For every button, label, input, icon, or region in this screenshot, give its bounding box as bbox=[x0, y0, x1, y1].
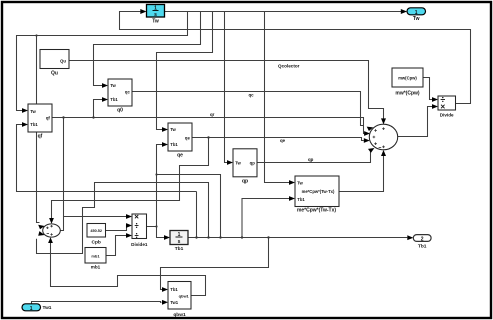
block Cpb bbox=[87, 224, 106, 246]
svg-text:qf: qf bbox=[38, 134, 43, 140]
wire Tb1 main line to outport bbox=[188, 237, 407, 239]
svg-text:q0: q0 bbox=[117, 108, 123, 114]
svg-text:Tw: Tw bbox=[170, 127, 176, 132]
svg-text:Tw: Tw bbox=[30, 109, 36, 114]
svg-text:qc: qc bbox=[125, 90, 131, 95]
svg-text:Tb1: Tb1 bbox=[418, 244, 427, 250]
svg-text:me*Cpw*(Tw-Tx): me*Cpw*(Tw-Tx) bbox=[302, 189, 335, 194]
svg-text:Tw: Tw bbox=[297, 180, 303, 185]
inport oval Tw1 bbox=[22, 304, 52, 312]
wire meCpw output to big sum bottom bbox=[339, 156, 384, 192]
svg-text:Divide1: Divide1 bbox=[131, 242, 148, 247]
wire qc from q0 to big sum bbox=[132, 92, 364, 126]
wire Tb1 v1 riser bbox=[196, 192, 198, 238]
block qp bbox=[233, 149, 257, 185]
block meCpw bbox=[295, 176, 339, 214]
svg-text:qbw1: qbw1 bbox=[179, 294, 190, 299]
svg-text:Tb1: Tb1 bbox=[30, 122, 38, 127]
wire Tb1 branch to qbw1.Tb1 bbox=[161, 238, 269, 290]
arrow into Tb1 outport bbox=[407, 235, 413, 240]
block qe bbox=[168, 123, 192, 159]
integrator Tw (cyan 1/s) bbox=[147, 5, 165, 25]
svg-text:qp: qp bbox=[250, 160, 256, 165]
junction on Tb1 line at v3 bbox=[219, 236, 221, 238]
big sum junction bbox=[369, 124, 397, 150]
arrow into small sum top bbox=[49, 218, 54, 224]
arrow into q0.Tw bbox=[102, 83, 108, 88]
wire qp from qp block to big sum bbox=[257, 152, 371, 163]
svg-text:1: 1 bbox=[154, 6, 157, 12]
svg-text:Tw: Tw bbox=[110, 83, 116, 88]
arrow into Tw outport bbox=[401, 9, 407, 14]
arrow into qe.Tb1 bbox=[162, 142, 168, 147]
wire Tb1 rail to qe.Tb1 bbox=[157, 145, 163, 227]
arrow into qf.Tb1 bbox=[22, 122, 28, 127]
wire small sum output to Divide1 bbox=[60, 217, 126, 231]
arrow into qp.Tw bbox=[227, 160, 233, 165]
block q0 bbox=[108, 79, 132, 114]
arrowheads bbox=[22, 9, 438, 305]
arrow into Tb1 integrator bbox=[164, 235, 170, 240]
arrow into small sum lower-left bbox=[38, 231, 44, 236]
wire Tw1 inport to qbw1.Tw1 bbox=[32, 302, 162, 305]
arrow into big sum qe port bbox=[364, 138, 370, 143]
wire Tb1 feed to meCpw.Tb1 bbox=[242, 199, 289, 238]
wire Tw drop 4 to qp.Tw bbox=[225, 12, 228, 163]
arrow into integrator Tw bbox=[140, 9, 146, 14]
svg-text:Tb1: Tb1 bbox=[110, 97, 118, 102]
outport oval Tb1 bbox=[413, 235, 431, 250]
junction on Tb1 line at meCpw branch bbox=[241, 236, 243, 238]
svg-text:Qcolector: Qcolector bbox=[278, 64, 300, 69]
svg-text:1: 1 bbox=[178, 232, 181, 238]
svg-text:qbw1: qbw1 bbox=[173, 312, 186, 318]
svg-text:qe: qe bbox=[177, 153, 183, 159]
block Divide1 bbox=[131, 214, 148, 247]
svg-text:Tb1: Tb1 bbox=[170, 142, 178, 147]
svg-text:Divide: Divide bbox=[440, 113, 454, 118]
svg-text:Tw: Tw bbox=[413, 16, 420, 22]
arrow into big sum qf port bbox=[364, 131, 370, 136]
integrator Tb1 (1/s) bbox=[170, 231, 188, 253]
svg-text:s: s bbox=[154, 12, 157, 18]
svg-text:1: 1 bbox=[415, 10, 418, 16]
arrow into Divide1 input 1 bbox=[126, 214, 132, 219]
junction on Tb1 rail at y=174.5 bbox=[155, 173, 157, 175]
block mb1 bbox=[85, 248, 106, 270]
wire mwCpw output to Divide bbox=[423, 78, 432, 100]
svg-text:qe: qe bbox=[185, 136, 191, 141]
wire Tw drop 3 to qe.Tw bbox=[157, 12, 213, 130]
block Qu bbox=[40, 50, 69, 77]
junction on qf wire at x=93.5 bbox=[92, 116, 94, 118]
wire mb1 output to Divide1 bbox=[106, 236, 127, 256]
wire Divide output return loop to integrator input bbox=[120, 12, 471, 104]
junction on Tw drop1 line bbox=[35, 34, 37, 36]
arrow into big sum top bbox=[381, 118, 386, 124]
arrow into small sum upper-left bbox=[38, 225, 44, 230]
wire Tb1 v3 riser bbox=[157, 175, 221, 238]
svg-text:2: 2 bbox=[421, 236, 424, 242]
arrow into big sum bottom bbox=[381, 150, 386, 156]
block qf bbox=[28, 104, 52, 140]
svg-text:qr: qr bbox=[210, 112, 215, 117]
svg-text:Qu: Qu bbox=[51, 71, 58, 77]
arrow into meCpw.Tw bbox=[289, 180, 295, 185]
wire Tw bus (integrator output to Tw outport) bbox=[165, 11, 404, 13]
junction on qe wire bbox=[207, 136, 209, 138]
arrow into big sum qc port bbox=[367, 127, 374, 131]
wire qf from qf block to big sum bbox=[52, 118, 364, 134]
outport oval Tw bbox=[407, 8, 426, 22]
junction on Tb1 line at v1 bbox=[195, 236, 197, 238]
wire qe from qe block to big sum bbox=[192, 138, 364, 141]
wire Tw rail to small sum upper-left bbox=[37, 36, 40, 223]
svg-text:1: 1 bbox=[30, 306, 33, 312]
svg-text:Cpb: Cpb bbox=[92, 240, 101, 246]
wire big sum output to Divide bbox=[398, 107, 432, 137]
svg-text:Tw1: Tw1 bbox=[170, 300, 179, 305]
arrow into qbw1.Tb1 bbox=[162, 287, 168, 292]
wire qe branch to small sum top bbox=[52, 138, 209, 219]
arrow into meCpw.Tb1 bbox=[289, 196, 295, 201]
arrow into Divide top input bbox=[432, 97, 438, 102]
svg-text:450.52: 450.52 bbox=[90, 229, 102, 233]
svg-text:s: s bbox=[178, 239, 181, 245]
arrow into Divide1 input 2 bbox=[126, 223, 132, 228]
arrow into qbw1.Tw1 bbox=[162, 300, 168, 305]
wire Divide1 output to Tb1 integrator bbox=[147, 227, 165, 238]
svg-text:qe: qe bbox=[280, 138, 286, 143]
svg-text:mw*(Cpw): mw*(Cpw) bbox=[395, 90, 420, 96]
wire Tw drop 5 to meCpw.Tw bbox=[265, 12, 290, 183]
arrow into Divide bottom input bbox=[432, 104, 438, 109]
junction on qf wire at x=63.5 bbox=[62, 116, 64, 118]
wire Tb1 to qf.Tb1 bbox=[17, 125, 197, 192]
svg-text:qc: qc bbox=[249, 93, 255, 98]
svg-text:Tw1: Tw1 bbox=[43, 305, 52, 311]
svg-text:qp: qp bbox=[242, 178, 248, 184]
svg-text:qp: qp bbox=[308, 157, 314, 162]
arrow into qe.Tw bbox=[162, 127, 168, 132]
block qbw1 bbox=[168, 282, 191, 319]
wire Cpb output to Divide1 bbox=[106, 226, 128, 231]
svg-text:Tw: Tw bbox=[152, 19, 159, 25]
junction on Tb1 line at qbw1 branch bbox=[267, 236, 269, 238]
svg-text:me*Cpw*(Tw-Tx): me*Cpw*(Tw-Tx) bbox=[297, 208, 336, 214]
svg-text:mw(Cpw): mw(Cpw) bbox=[398, 75, 417, 80]
wire Tb1 v2 riser to small sum lower-left bbox=[37, 183, 209, 254]
arrow into q0.Tb1 bbox=[102, 97, 108, 102]
small sum junction bbox=[43, 224, 61, 237]
wire Tw drop 2 to q0.Tw bbox=[94, 12, 201, 86]
svg-text:Tb1: Tb1 bbox=[297, 197, 305, 202]
arrow into small sum bottom bbox=[48, 237, 53, 243]
svg-text:Qu: Qu bbox=[60, 58, 66, 63]
block mwCpw bbox=[392, 68, 423, 96]
junction on Tb1 line at v2 bbox=[207, 236, 209, 238]
wire qbw1 output loop to small sum bottom bbox=[51, 243, 206, 296]
block Divide bbox=[438, 96, 456, 118]
svg-text:Tb1: Tb1 bbox=[170, 287, 178, 292]
wire Tw drop 1 to qf.Tw bbox=[17, 12, 188, 111]
svg-text:mb1: mb1 bbox=[91, 253, 100, 258]
svg-text:mb1: mb1 bbox=[91, 265, 101, 270]
arrow into qf.Tw bbox=[22, 108, 28, 113]
svg-text:qf: qf bbox=[46, 115, 51, 120]
svg-text:Tb1: Tb1 bbox=[175, 246, 184, 252]
arrow into Divide1 input 3 bbox=[126, 233, 132, 238]
wire Qu output to big sum top bbox=[69, 61, 384, 120]
arrow into big sum qp port bbox=[368, 148, 374, 153]
junction on Tb1 rail at Divide1 output bbox=[155, 225, 157, 227]
svg-text:Tw: Tw bbox=[235, 160, 241, 165]
wire Tb1 branch up to q0.Tb1 bbox=[94, 100, 103, 118]
wire qf branch down to small sum output corner bbox=[63, 118, 65, 217]
